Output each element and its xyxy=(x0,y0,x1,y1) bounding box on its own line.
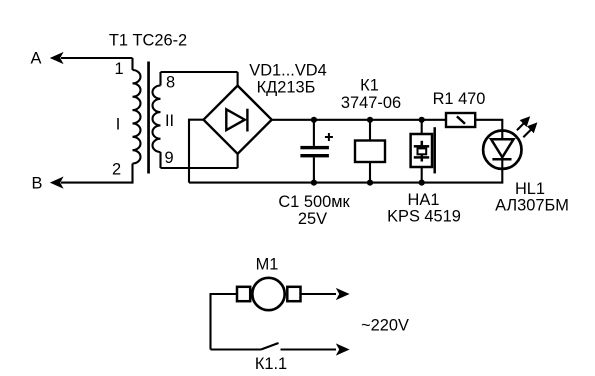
transformer core xyxy=(147,62,150,174)
sounder HA1 xyxy=(411,127,435,173)
node A xyxy=(31,50,42,68)
svg-text:М1: М1 xyxy=(256,256,279,274)
node dot K1 top xyxy=(367,117,373,123)
bridge rectifier diamond xyxy=(204,86,272,154)
transformer T1 secondary winding xyxy=(152,86,160,153)
svg-text:КД213Б: КД213Б xyxy=(257,79,316,97)
svg-text:KPS 4519: KPS 4519 xyxy=(387,208,461,226)
wire terminal 8 xyxy=(161,72,238,86)
svg-text:I: I xyxy=(116,116,121,134)
pin 2 label xyxy=(112,161,121,179)
wire terminal 2 xyxy=(61,164,133,183)
svg-text:R1 470: R1 470 xyxy=(433,90,486,108)
switch K1.1 xyxy=(261,343,279,350)
wire bridge top vertex xyxy=(237,72,239,86)
wire bridge bottom vertex xyxy=(237,154,239,168)
wire top bus xyxy=(272,120,503,131)
svg-text:А: А xyxy=(31,50,42,68)
relay K1 coil xyxy=(355,141,385,163)
K1.1 label xyxy=(255,355,287,373)
node dot C1 top xyxy=(311,117,317,123)
svg-text:25V: 25V xyxy=(298,210,327,228)
C1 value label xyxy=(278,193,350,228)
svg-text:К1.1: К1.1 xyxy=(255,355,287,373)
wire HA1 xyxy=(421,120,423,183)
svg-text:К1: К1 xyxy=(360,77,379,95)
pin 8 label xyxy=(166,74,175,92)
wire bridge minus to bottom bus xyxy=(189,120,204,183)
capacitor C1 xyxy=(300,120,333,183)
winding II label xyxy=(165,112,174,130)
node B xyxy=(32,175,43,193)
svg-text:VD1...VD4: VD1...VD4 xyxy=(249,62,326,80)
pin 1 label xyxy=(114,60,123,78)
bridge rectifier VD1...VD4 labels xyxy=(249,62,326,97)
node dot C1 bottom xyxy=(311,180,317,186)
resistor R1 xyxy=(446,113,475,127)
wire bottom bus xyxy=(189,169,502,183)
~220V label xyxy=(361,317,409,335)
svg-text:С1 500мк: С1 500мк xyxy=(278,193,350,211)
motor M1 xyxy=(237,278,301,310)
svg-text:АЛ307БМ: АЛ307БМ xyxy=(495,197,569,215)
HA1 label xyxy=(387,191,461,226)
wire motor right arrow xyxy=(301,293,337,295)
transformer T1 primary winding xyxy=(133,70,141,164)
bridge diode symbol xyxy=(226,109,247,132)
wire switch to arrow xyxy=(281,348,337,350)
LED emission arrows xyxy=(517,116,538,137)
resistor R1 label xyxy=(433,90,486,108)
wire LED anode xyxy=(501,131,503,169)
node dot HA1 top xyxy=(419,117,425,123)
svg-text:1: 1 xyxy=(114,60,123,78)
wire A arrow xyxy=(50,52,133,64)
svg-text:3747-06: 3747-06 xyxy=(341,94,401,112)
svg-text:8: 8 xyxy=(166,74,175,92)
wire K1 xyxy=(369,120,371,183)
wire motor left xyxy=(211,294,238,350)
pin 9 label xyxy=(164,149,173,167)
motor M1 label xyxy=(256,256,279,274)
node dot HA1 bottom xyxy=(419,180,425,186)
wire terminal 9 xyxy=(161,152,238,168)
svg-text:II: II xyxy=(165,112,174,130)
svg-text:2: 2 xyxy=(112,161,121,179)
winding I label xyxy=(116,116,121,134)
svg-text:Т1 ТС26-2: Т1 ТС26-2 xyxy=(109,32,187,50)
LED HL1 xyxy=(483,131,521,169)
svg-text:НА1: НА1 xyxy=(408,191,440,209)
relay K1 label xyxy=(341,77,401,113)
HL1 label xyxy=(495,180,569,215)
node B arrow xyxy=(50,177,64,189)
svg-text:9: 9 xyxy=(164,149,173,167)
transformer T1 label xyxy=(109,32,187,50)
node dot K1 bottom xyxy=(367,180,373,186)
wire bottom rail xyxy=(211,348,262,350)
wire terminal 1 xyxy=(131,58,133,70)
svg-text:~220V: ~220V xyxy=(361,317,409,335)
svg-text:HL1: HL1 xyxy=(515,180,545,198)
svg-text:В: В xyxy=(32,175,43,193)
